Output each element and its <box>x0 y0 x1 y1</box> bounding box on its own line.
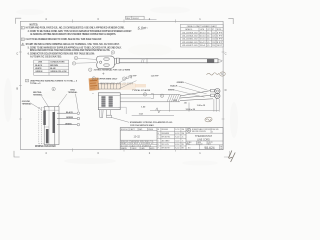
circled 2 flag left of plug <box>72 62 75 65</box>
zone ticks right border <box>222 52 225 119</box>
company logo <box>187 128 191 132</box>
svg-text:RB: RB <box>182 148 184 150</box>
svg-text:LGTH: LGTH <box>200 29 204 31</box>
title block left section text <box>121 128 153 131</box>
title block frame <box>120 128 223 150</box>
svg-text:3-7-53: 3-7-53 <box>175 129 179 131</box>
note flag 3 <box>21 38 24 41</box>
note flag 1 <box>21 27 24 30</box>
svg-text:BLACK: BLACK <box>66 111 74 114</box>
breakline marks on cable <box>141 59 144 63</box>
rev box on top border <box>126 16 157 20</box>
svg-text:1.25 TYP: 1.25 TYP <box>151 75 160 77</box>
blade slot 1 <box>104 58 109 60</box>
wiring diagram: ring terminal label <box>68 89 78 94</box>
wiring diagram: ground terminal label <box>22 101 32 105</box>
svg-text:D: D <box>158 140 159 142</box>
svg-text:CHECK: CHECK <box>131 148 136 150</box>
svg-text:6 FT: 6 FT <box>217 39 223 41</box>
wire black (diagram) <box>57 112 77 114</box>
leader to plug text <box>111 117 129 122</box>
enlarged plug ribbed strip <box>98 83 136 90</box>
corner tick top-right <box>228 18 233 24</box>
svg-text:5 FT: 5 FT <box>217 36 223 38</box>
svg-text:REV NOTE 7: REV NOTE 7 <box>162 148 171 150</box>
svg-text:120±3.: 120±3. <box>200 45 207 47</box>
crimp barrel 1 <box>211 89 215 92</box>
rib dimension 1.25 <box>123 77 126 80</box>
svg-text:JC: JC <box>182 137 184 139</box>
svg-text:WHITE: WHITE <box>168 89 175 91</box>
svg-text:41-0063-00: 41-0063-00 <box>182 32 198 34</box>
svg-text:AUTOMATIC DESIGNATED:: AUTOMATIC DESIGNATED: <box>30 55 62 58</box>
leader ring->terminals <box>58 94 68 107</box>
enlarged cable midline <box>120 97 151 99</box>
scale/date row <box>196 141 198 145</box>
svg-text:98-624: 98-624 <box>204 146 214 150</box>
pencil scribble near cable end <box>207 73 219 75</box>
svg-text:5.0m↑: 5.0m↑ <box>137 25 148 31</box>
flag circle 7 on cable <box>143 93 146 96</box>
plug stem <box>99 110 103 118</box>
plug body (wiring diagram) <box>44 107 59 145</box>
pencil circled mark <box>205 117 213 123</box>
main view: plug face <box>97 56 115 69</box>
cable marker band <box>207 59 214 63</box>
border frame <box>20 21 223 149</box>
svg-text:USE: USE <box>38 62 43 64</box>
hatched blade B <box>109 96 113 108</box>
ring lug 1 <box>77 112 80 115</box>
svg-text:CATALOG PART NUMBER CHART: CATALOG PART NUMBER CHART <box>187 25 218 28</box>
zone numbers top <box>45 17 201 21</box>
wire white (diagram) <box>57 124 77 126</box>
svg-text:B: B <box>16 86 18 90</box>
svg-text:FLAT TO BE RUBBER MOLDED TO CO: FLAT TO BE RUBBER MOLDED TO CORD. SEE DE… <box>26 38 102 41</box>
svg-text:1.00 ±.12: 1.00 ±.12 <box>197 105 206 107</box>
svg-text:THERMOSTAT: THERMOSTAT <box>195 134 213 138</box>
plus mark under plug <box>102 73 104 75</box>
flag circle 6 on cable <box>160 94 163 97</box>
svg-text:60±2.0: 60±2.0 <box>200 36 206 38</box>
title block left section grid <box>120 128 157 150</box>
svg-text:STAMP ON INSULATION CRIMPING A: STAMP ON INSULATION CRIMPING ANGLE OF TE… <box>26 43 120 46</box>
svg-text:F: F <box>158 148 159 150</box>
zone letters left <box>16 52 18 91</box>
svg-text:1-6-54: 1-6-54 <box>175 140 179 142</box>
dim line <box>150 109 219 111</box>
jacket strip hatch <box>167 95 181 102</box>
svg-text:STANDARD 3 PRONG POLARIZED PLU: STANDARD 3 PRONG POLARIZED PLUG <box>130 121 173 124</box>
svg-text:12.00 ±.50: 12.00 ±.50 <box>186 109 196 111</box>
svg-text:TOTAL ± 5: TOTAL ± 5 <box>30 82 41 85</box>
svg-text:REV LGTH: REV LGTH <box>162 144 169 146</box>
svg-text:4: 4 <box>22 44 23 46</box>
svg-text:WH: WH <box>182 133 184 135</box>
svg-text:8-2-54: 8-2-54 <box>175 148 179 150</box>
svg-text:FINISH: FINISH <box>148 129 153 131</box>
ring terminal A <box>215 89 220 94</box>
svg-text:2.50: 2.50 <box>212 45 215 47</box>
svg-text:6. CONDUCTOR COLOR IDENTIFICAT: 6. CONDUCTOR COLOR IDENTIFICATION USE PE… <box>28 53 95 56</box>
svg-text:E: E <box>158 144 159 146</box>
svg-text:RB: RB <box>182 144 184 146</box>
svg-text:INSULATED END TO BE TREATED LO: INSULATED END TO BE TREATED LOOSE LOOSE … <box>30 49 110 52</box>
small dim corner right of prongs <box>119 107 127 114</box>
svg-text:RECEIVED JUL 13 1954: RECEIVED JUL 13 1954 <box>100 82 134 86</box>
svg-text:GREEN: GREEN <box>35 71 43 73</box>
logo section divider <box>186 132 223 134</box>
svg-text:BLACK: BLACK <box>170 85 178 88</box>
svg-text:4-9-54: 4-9-54 <box>175 144 179 146</box>
table column heads <box>185 28 221 31</box>
hatched blade A <box>101 96 105 108</box>
svg-text:98-624: 98-624 <box>132 18 139 20</box>
drawing number row <box>199 145 201 150</box>
fanned wire 1 <box>180 91 211 96</box>
svg-text:8 FT: 8 FT <box>217 42 223 44</box>
zone ticks left border <box>19 52 22 119</box>
conductor color table <box>34 60 69 75</box>
plug neck <box>115 58 117 65</box>
dim line 2 <box>132 115 174 117</box>
svg-text:WHITE: WHITE <box>35 68 42 70</box>
blade terminal 1 <box>43 111 46 126</box>
pencil half mark bottom right <box>228 151 235 163</box>
svg-text:GREEN-YELLOW: GREEN-YELLOW <box>50 71 66 73</box>
svg-text:41-0067-00: 41-0067-00 <box>182 45 198 47</box>
svg-text:GREEN: GREEN <box>177 82 185 84</box>
leader neutral->plug <box>42 96 49 107</box>
jacket end bracket <box>151 94 154 99</box>
svg-text:TYPICAL 3 PLACES: TYPICAL 3 PLACES <box>132 89 151 92</box>
svg-text:COPPER WIRE ONLY: COPPER WIRE ONLY <box>97 79 118 81</box>
blade slot 2 <box>104 64 109 66</box>
svg-text:41-0065-00: 41-0065-00 <box>182 39 198 41</box>
svg-text:41-0066-00: 41-0066-00 <box>182 42 198 44</box>
svg-text:1.25: 1.25 <box>212 32 215 34</box>
circled 4 flag above plug <box>111 51 114 54</box>
cable jacket <box>119 59 218 63</box>
dim extension lines <box>170 99 220 112</box>
zone ticks bottom border <box>73 148 176 151</box>
svg-text:BLUE: BLUE <box>50 68 56 70</box>
ring lug 2 <box>77 117 80 120</box>
cable end tails <box>218 60 222 63</box>
note flag 4 <box>21 43 24 46</box>
zone ticks top border <box>73 19 176 22</box>
leader white <box>175 90 205 97</box>
zone numbers bottom <box>45 151 201 155</box>
wiring diagram: neutral terminal label <box>33 91 43 96</box>
svg-text:FOR 15A SERVICE MAX.: FOR 15A SERVICE MAX. <box>130 124 154 127</box>
svg-text:72±2.5: 72±2.5 <box>200 39 206 41</box>
svg-text:MILFORD DIVISION: MILFORD DIVISION <box>192 131 206 133</box>
revision table <box>157 128 186 150</box>
svg-text:41-0064-00: 41-0064-00 <box>182 36 198 38</box>
svg-text:1.50: 1.50 <box>212 39 215 41</box>
svg-text:REV: REV <box>126 18 131 20</box>
corner tick bottom-right <box>224 151 230 157</box>
break zigzag <box>156 108 161 113</box>
blade terminal 2 <box>53 112 56 133</box>
svg-text:DWG SIZE: DWG SIZE <box>212 129 219 131</box>
svg-text:1/1: 1/1 <box>220 148 222 150</box>
svg-text:GREEN: GREEN <box>66 117 74 119</box>
svg-text:R: R <box>188 128 190 132</box>
scan smudges <box>4 7 238 166</box>
svg-text:NOTE: NOTE <box>217 29 221 31</box>
circled 3 flag left of plug <box>74 56 77 59</box>
ring terminal B <box>215 93 220 98</box>
color table text <box>35 62 66 73</box>
corner tick top-left <box>16 18 22 24</box>
svg-text:D: D <box>225 88 227 92</box>
svg-text:1.25: 1.25 <box>212 36 215 38</box>
fanned wire 2 <box>180 95 211 98</box>
catalog part table <box>181 24 224 47</box>
svg-text:WH: WH <box>182 129 184 131</box>
svg-text:1: 1 <box>90 70 91 72</box>
svg-text:NOTES:: NOTES: <box>30 25 39 27</box>
dashed molded flange <box>39 108 44 144</box>
enlarged cable bottom line <box>120 101 180 103</box>
enlarged cable top line <box>120 94 180 96</box>
terminal note under cable <box>89 68 92 71</box>
svg-text:QTY: QTY <box>207 29 210 31</box>
orange inspection stamp <box>89 78 100 91</box>
svg-text:96±2.5: 96±2.5 <box>200 42 206 44</box>
svg-text:6-2-53: 6-2-53 <box>175 133 179 135</box>
svg-text:5: 5 <box>93 78 94 80</box>
svg-text:BLACK: BLACK <box>35 64 43 67</box>
svg-text:2. CORD TO BE THREE COND. AWG: 2. CORD TO BE THREE COND. AWG TYPE SJ NO… <box>28 30 133 33</box>
svg-text:1.50: 1.50 <box>212 42 215 44</box>
corner tick bottom-left <box>14 151 20 157</box>
svg-text:SH: SH <box>220 146 222 148</box>
revision table text <box>158 128 184 150</box>
projection diagonals <box>119 81 137 89</box>
svg-text:JC: JC <box>182 140 184 142</box>
enlarged plug front view <box>98 93 120 110</box>
crimp barrel 2 <box>211 94 215 97</box>
leader black <box>179 86 207 94</box>
wire green (diagram) <box>57 118 77 120</box>
svg-text:BROWN: BROWN <box>50 65 58 67</box>
svg-text:WHITE: WHITE <box>65 123 72 125</box>
wire end down <box>215 99 217 112</box>
svg-text:UNLESS OTHERWISE SPECIFIED TOL: UNLESS OTHERWISE SPECIFIED TOL. <box>121 141 155 143</box>
lower blade bar <box>46 129 49 143</box>
ring lug 3 <box>77 123 80 126</box>
svg-text:9-4-53: 9-4-53 <box>175 137 179 139</box>
svg-text:C: C <box>158 137 159 139</box>
svg-text:C: C <box>16 52 18 56</box>
company name <box>192 128 211 133</box>
zone letters right <box>225 52 227 93</box>
svg-text:B: B <box>158 133 159 135</box>
svg-text:B: B <box>212 131 213 133</box>
svg-text:CONDUCTORS: CONDUCTORS <box>50 62 65 64</box>
svg-text:4 FT: 4 FT <box>217 32 223 34</box>
svg-text:48±2.0: 48±2.0 <box>200 32 206 34</box>
svg-text:10 FT: 10 FT <box>217 45 223 47</box>
svg-text:WIRING DIAGRAM: WIRING DIAGRAM <box>35 145 56 148</box>
svg-text:MOLD NO: MOLD NO <box>121 129 129 131</box>
svg-text:REV NOTE 4: REV NOTE 4 <box>162 137 171 139</box>
svg-text:1.25 TYP: 1.25 TYP <box>129 76 138 78</box>
svg-text:ALTERNATE ANYTIME NO.60 AWG/67: ALTERNATE ANYTIME NO.60 AWG/67 C6% STRAN… <box>30 33 116 36</box>
ground hole <box>99 61 101 63</box>
svg-text:#6 RING TERMINAL FOR #14 CU WI: #6 RING TERMINAL FOR #14 CU WIRE <box>94 68 131 71</box>
svg-text:HI TEMP AND POOL RATED SJL. NO: HI TEMP AND POOL RATED SJL. NO. 23 CM RE… <box>26 27 125 30</box>
wire labels <box>65 111 73 125</box>
note 7 <box>26 79 29 82</box>
leader ground->plug <box>30 103 42 110</box>
notes text block <box>26 27 133 59</box>
svg-text:C: C <box>225 52 227 56</box>
flagged note 2 <box>92 77 95 80</box>
dim texts <box>139 100 206 115</box>
svg-text:REVISED: REVISED <box>162 129 168 131</box>
svg-text:10-32: 10-32 <box>134 135 141 138</box>
fanned wire 3 <box>180 99 213 101</box>
wire color labels right detail <box>168 82 184 92</box>
svg-text:DR. BY: DR. BY <box>208 142 213 144</box>
svg-text:FT: FT <box>212 29 214 31</box>
leader green <box>185 82 208 90</box>
table rows <box>182 32 222 47</box>
circled 8 flag <box>52 87 55 90</box>
